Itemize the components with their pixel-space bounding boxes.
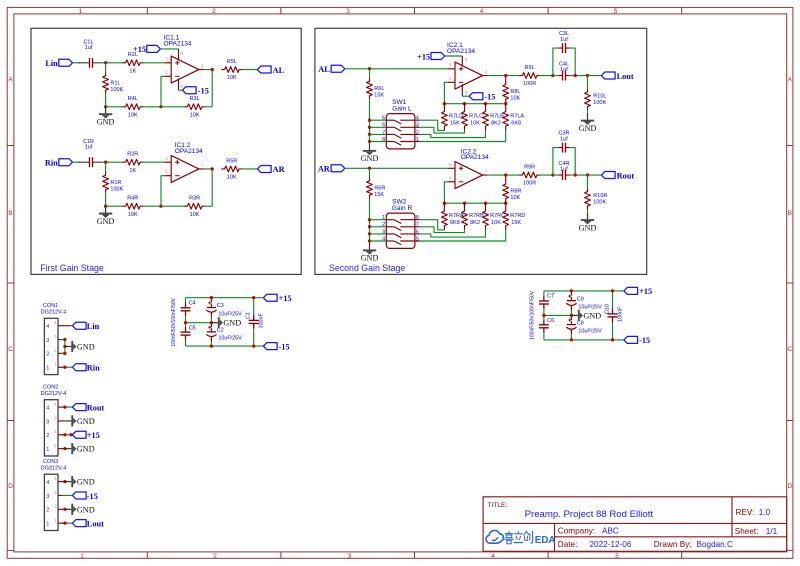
switch pole 4	[386, 141, 394, 143]
svg-text:10K: 10K	[190, 212, 200, 218]
svg-text:10K: 10K	[510, 96, 520, 102]
svg-text:R5L: R5L	[227, 59, 237, 65]
ground	[65, 448, 71, 450]
junction	[443, 202, 446, 205]
op-amp power pin 4	[461, 84, 463, 96]
svg-text:Company:: Company:	[558, 526, 595, 535]
pin 2	[58, 508, 65, 510]
capacitor C7	[543, 291, 545, 296]
JLCEDA logo text jia li chuang (drawn strokes)	[505, 533, 513, 535]
svg-text:10K: 10K	[227, 75, 237, 81]
wire	[161, 106, 184, 108]
svg-text:10K: 10K	[227, 175, 237, 181]
junction	[159, 205, 162, 208]
op-amp power pin 8	[178, 49, 180, 61]
op-amp IC2.1	[455, 62, 483, 89]
power flag -15	[182, 87, 196, 94]
pin 1	[58, 448, 65, 450]
svg-text:R8L: R8L	[510, 89, 520, 95]
svg-text:B: B	[8, 210, 12, 217]
wire	[143, 62, 164, 64]
svg-text:Drawn By:: Drawn By:	[654, 540, 692, 549]
svg-text:TITLE:: TITLE:	[488, 502, 508, 509]
wire	[105, 93, 107, 107]
resistor R7LD	[442, 109, 448, 129]
wire	[242, 69, 257, 71]
svg-text:6: 6	[416, 229, 419, 235]
svg-text:2: 2	[46, 508, 49, 514]
svg-text:R8R: R8R	[510, 188, 521, 194]
wire	[160, 48, 178, 50]
junction	[159, 105, 162, 108]
svg-text:2: 2	[213, 553, 217, 560]
resistor R3L	[184, 104, 204, 110]
svg-text:-15: -15	[639, 336, 650, 345]
svg-text:10K: 10K	[128, 212, 138, 218]
ground	[369, 144, 371, 151]
ground	[571, 314, 577, 316]
pin 2	[58, 434, 65, 436]
junction	[574, 74, 577, 77]
svg-text:3: 3	[46, 494, 49, 500]
wire	[103, 161, 123, 163]
power flag -15	[469, 93, 483, 100]
svg-text:AL: AL	[273, 66, 285, 75]
svg-text:R10R: R10R	[593, 193, 607, 199]
svg-text:OPA2134: OPA2134	[164, 40, 192, 47]
svg-text:100nF/50V: 100nF/50V	[171, 322, 177, 347]
svg-text:R7LC: R7LC	[469, 114, 483, 120]
svg-text:First Gain Stage: First Gain Stage	[40, 263, 104, 273]
junction	[542, 314, 545, 317]
svg-text:1: 1	[79, 8, 83, 15]
port Rin	[72, 364, 86, 371]
junction	[63, 345, 66, 348]
svg-text:8K2: 8K2	[491, 121, 501, 127]
svg-text:15K: 15K	[374, 192, 384, 198]
svg-text:R4L: R4L	[128, 96, 138, 102]
svg-text:10K: 10K	[510, 195, 520, 201]
title block row divider 1	[483, 522, 787, 524]
svg-text:R6R: R6R	[374, 186, 385, 192]
junction	[574, 173, 577, 176]
svg-text:CON2: CON2	[43, 385, 58, 391]
wire	[544, 290, 624, 292]
op-amp IC1.1	[171, 56, 199, 83]
junction	[63, 352, 66, 355]
svg-text:OPA2134: OPA2134	[447, 48, 475, 55]
svg-text:C6: C6	[547, 318, 554, 324]
wire	[444, 82, 448, 103]
svg-text:+15: +15	[133, 45, 146, 54]
svg-text:100nF/50V: 100nF/50V	[530, 315, 536, 340]
ground	[105, 107, 107, 114]
svg-text:REV:: REV:	[736, 508, 755, 517]
svg-text:CON1: CON1	[43, 303, 58, 309]
ground	[65, 508, 71, 510]
wire	[65, 366, 73, 368]
wire	[488, 75, 520, 77]
svg-text:100nF: 100nF	[618, 306, 624, 322]
svg-text:OPA2134: OPA2134	[175, 148, 203, 155]
junction	[252, 344, 255, 347]
svg-text:1uf: 1uf	[85, 45, 93, 51]
svg-text:100nF: 100nF	[259, 313, 265, 329]
wire	[370, 233, 387, 235]
svg-text:2: 2	[46, 433, 49, 439]
wire	[62, 494, 73, 496]
svg-text:GND: GND	[77, 342, 95, 351]
wire	[370, 126, 387, 128]
wire	[65, 522, 73, 524]
junction	[211, 167, 214, 170]
svg-text:8: 8	[416, 215, 419, 221]
wire	[420, 230, 486, 237]
junction	[504, 74, 507, 77]
wire	[106, 205, 123, 207]
wire	[73, 62, 80, 64]
svg-text:1uf: 1uf	[560, 167, 568, 173]
svg-text:6K8: 6K8	[450, 220, 460, 226]
wire	[242, 168, 257, 170]
junction	[368, 218, 371, 221]
wire	[186, 297, 264, 299]
pin 4	[58, 325, 65, 327]
ground	[369, 243, 371, 250]
svg-text:R2R: R2R	[127, 152, 138, 158]
junction	[463, 102, 466, 105]
JLCEDA logo cloud icon	[486, 530, 503, 543]
svg-text:100K: 100K	[593, 100, 606, 106]
junction	[570, 289, 573, 292]
svg-text:1: 1	[46, 447, 49, 453]
svg-text:Bogdan.C: Bogdan.C	[697, 540, 734, 549]
wire	[370, 141, 387, 143]
wire	[445, 55, 463, 57]
svg-text:1/1: 1/1	[766, 527, 778, 536]
svg-text:R7RC: R7RC	[490, 213, 505, 219]
junction	[504, 173, 507, 176]
svg-text:R1L: R1L	[110, 81, 120, 87]
svg-text:A: A	[8, 77, 13, 84]
wire	[420, 130, 506, 141]
svg-text:DG212V-4: DG212V-4	[41, 310, 67, 316]
resistor R4R	[123, 203, 143, 209]
junction	[104, 161, 107, 164]
pin 2	[58, 352, 65, 354]
resistor R7RA	[442, 208, 448, 228]
svg-text:5: 5	[416, 236, 419, 242]
capacitor C3R	[558, 147, 562, 149]
svg-text:15K: 15K	[450, 121, 460, 127]
svg-text:1: 1	[80, 553, 84, 560]
pin 3	[58, 420, 65, 422]
svg-text:Date:: Date:	[558, 540, 578, 549]
svg-text:15K: 15K	[374, 93, 384, 99]
svg-text:1K: 1K	[129, 168, 136, 174]
switch pole 2	[386, 126, 394, 128]
junction	[368, 167, 371, 170]
svg-text:C5: C5	[189, 325, 196, 331]
wire	[570, 75, 602, 77]
svg-text:100nF/50V: 100nF/50V	[171, 297, 177, 322]
svg-text:1: 1	[46, 366, 49, 372]
svg-text:8K2: 8K2	[470, 220, 480, 226]
svg-text:R9R: R9R	[524, 164, 535, 170]
power flag +15	[624, 287, 638, 294]
svg-text:A: A	[788, 77, 793, 84]
power flag +15	[147, 45, 161, 52]
resistor R10L	[585, 89, 591, 109]
junction	[211, 68, 214, 71]
junction	[104, 61, 107, 64]
junction	[551, 173, 554, 176]
svg-text:-15: -15	[279, 342, 290, 351]
svg-text:2: 2	[416, 130, 419, 136]
svg-text:100K: 100K	[593, 199, 606, 205]
resistor R8R	[503, 181, 509, 201]
pin 4	[58, 481, 65, 483]
svg-text:GND: GND	[583, 311, 601, 320]
svg-text:C: C	[787, 346, 792, 353]
power flag +15	[263, 294, 277, 301]
resistor R7LC	[462, 109, 468, 129]
wire	[143, 106, 161, 108]
junction	[368, 133, 371, 136]
port Rout	[601, 172, 615, 179]
svg-text:GND: GND	[361, 154, 379, 163]
wire	[420, 120, 445, 130]
pin 1	[58, 522, 65, 524]
switch pole 1	[386, 119, 394, 121]
junction	[63, 447, 66, 450]
port AL	[331, 65, 345, 72]
svg-text:DG212V-4: DG212V-4	[41, 465, 67, 471]
wire	[553, 75, 558, 77]
capacitor C9 polarized	[570, 291, 572, 296]
junction	[368, 126, 371, 129]
junction	[504, 202, 507, 205]
svg-text:GND: GND	[361, 254, 379, 263]
svg-text:+15: +15	[87, 431, 100, 440]
svg-text:4: 4	[491, 553, 495, 560]
resistor R5R	[222, 166, 242, 172]
switch pole 3	[386, 233, 394, 235]
svg-text:3: 3	[46, 419, 49, 425]
switch pole 1	[386, 219, 394, 221]
wire	[553, 148, 558, 176]
wire	[553, 174, 558, 176]
wire	[369, 168, 371, 178]
svg-text:R3L: R3L	[190, 96, 200, 102]
svg-text:R4R: R4R	[127, 196, 138, 202]
junction	[611, 338, 614, 341]
resistor R1R	[103, 172, 109, 192]
wire	[186, 322, 212, 324]
wire	[587, 209, 589, 213]
wire	[204, 69, 212, 71]
wire	[105, 193, 107, 207]
svg-text:C3: C3	[217, 303, 224, 309]
port Rin	[59, 159, 73, 166]
op-amp power pin 4	[178, 79, 180, 91]
pin 3	[58, 339, 65, 341]
svg-text:100nF/50V: 100nF/50V	[530, 290, 536, 315]
resistor R7LB	[483, 109, 489, 129]
svg-text:Lout: Lout	[617, 72, 634, 81]
svg-text:AR: AR	[318, 165, 331, 174]
junction	[368, 67, 371, 70]
switch pole 2	[386, 226, 394, 228]
resistor R8L	[503, 82, 509, 102]
svg-text:R7LD: R7LD	[449, 114, 463, 120]
wire	[204, 168, 212, 170]
wire	[143, 161, 164, 163]
wire	[444, 182, 448, 203]
wire	[345, 68, 448, 70]
switch SW1 Gain L	[386, 114, 415, 149]
svg-text:R5R: R5R	[226, 158, 237, 164]
svg-text:R7RD: R7RD	[510, 213, 525, 219]
svg-text:R3R: R3R	[189, 196, 200, 202]
svg-text:C8: C8	[577, 320, 584, 326]
wire	[179, 89, 183, 91]
svg-text:C9: C9	[577, 296, 584, 302]
wire	[370, 119, 387, 121]
wire	[587, 109, 589, 113]
svg-text:100K: 100K	[110, 87, 123, 93]
svg-text:3: 3	[46, 338, 49, 344]
svg-text:10K: 10K	[190, 112, 200, 118]
resistor R9L	[519, 73, 539, 79]
First Gain Stage box	[31, 28, 301, 274]
svg-text:Gain L: Gain L	[392, 106, 412, 113]
port AR	[257, 165, 271, 172]
svg-text:Sheet:: Sheet:	[735, 527, 759, 536]
svg-text:Rout: Rout	[617, 171, 635, 180]
svg-text:D: D	[787, 483, 792, 490]
svg-text:B: B	[788, 210, 792, 217]
wire	[370, 133, 387, 135]
junction	[63, 433, 66, 436]
junction	[63, 480, 66, 483]
junction	[210, 344, 213, 347]
wire	[205, 70, 212, 107]
svg-text:4: 4	[480, 8, 484, 15]
svg-text:C2: C2	[217, 328, 224, 334]
svg-text:AL: AL	[318, 65, 330, 74]
svg-text:GND: GND	[579, 223, 597, 232]
ground	[587, 213, 589, 220]
wire	[570, 174, 602, 176]
wire	[370, 226, 387, 228]
svg-text:GND: GND	[77, 478, 95, 487]
svg-text:ABC: ABC	[602, 526, 619, 535]
svg-text:Lout: Lout	[87, 519, 104, 528]
resistor R9R	[519, 172, 539, 178]
pin 4	[58, 406, 65, 408]
port Lout	[72, 520, 86, 527]
junction	[63, 522, 66, 525]
capacitor C5	[185, 323, 187, 327]
svg-text:3: 3	[416, 123, 419, 129]
frame corner jog bottom-left	[7, 549, 14, 551]
svg-text:1uf: 1uf	[560, 67, 568, 73]
svg-text:100R: 100R	[523, 181, 536, 187]
resistor R4L	[123, 104, 143, 110]
svg-text:2: 2	[212, 8, 216, 15]
svg-text:Lin: Lin	[45, 59, 58, 68]
resistor R7RB	[462, 208, 468, 228]
capacitor C4	[185, 298, 187, 303]
junction	[484, 202, 487, 205]
wire	[73, 161, 80, 163]
svg-text:GND: GND	[77, 417, 95, 426]
svg-text:5: 5	[615, 553, 619, 560]
svg-text:GND: GND	[97, 117, 115, 126]
junction	[184, 321, 187, 324]
svg-text:4: 4	[46, 480, 49, 486]
svg-text:10uF/25V: 10uF/25V	[218, 336, 242, 342]
switch pole 3	[386, 133, 394, 135]
junction	[368, 239, 371, 242]
svg-text:4: 4	[46, 405, 49, 411]
resistor R5L	[222, 67, 242, 73]
svg-text:-15: -15	[87, 492, 98, 501]
wire	[420, 130, 486, 137]
svg-text:Rout: Rout	[87, 403, 105, 412]
pin 1	[58, 366, 65, 368]
power flag -15	[263, 343, 277, 350]
junction	[551, 74, 554, 77]
wire	[544, 314, 572, 316]
port AR	[331, 165, 345, 172]
svg-text:1.0: 1.0	[759, 508, 771, 517]
svg-text:100R: 100R	[523, 81, 536, 87]
resistor R6R	[367, 178, 373, 198]
svg-text:10uF/25V: 10uF/25V	[578, 328, 602, 334]
wire	[103, 62, 123, 64]
switch SW2 Gain R	[386, 213, 415, 248]
wire	[205, 169, 212, 206]
frame corner jog bottom-right	[787, 549, 793, 551]
wire	[369, 198, 371, 243]
svg-text:1K: 1K	[129, 68, 136, 74]
svg-text:R7RB: R7RB	[469, 213, 484, 219]
junction	[63, 405, 66, 408]
capacitor C1R	[78, 161, 89, 163]
svg-text:1uf: 1uf	[560, 137, 568, 143]
wire	[420, 227, 465, 233]
pin 4 lead	[65, 325, 71, 327]
svg-text:10uF/25V: 10uF/25V	[218, 311, 242, 317]
wire	[540, 75, 553, 77]
svg-text:15K: 15K	[511, 220, 521, 226]
port Lout	[601, 72, 615, 79]
svg-text:10K: 10K	[128, 112, 138, 118]
ground	[105, 206, 107, 213]
junction	[368, 225, 371, 228]
junction	[368, 119, 371, 122]
wire	[570, 148, 576, 176]
svg-text:GND: GND	[223, 319, 241, 328]
junction	[104, 105, 107, 108]
wire	[161, 205, 184, 207]
resistor R7LA	[503, 109, 509, 129]
junction	[611, 289, 614, 292]
power flag +15	[72, 431, 86, 438]
svg-text:1uf: 1uf	[85, 145, 93, 151]
